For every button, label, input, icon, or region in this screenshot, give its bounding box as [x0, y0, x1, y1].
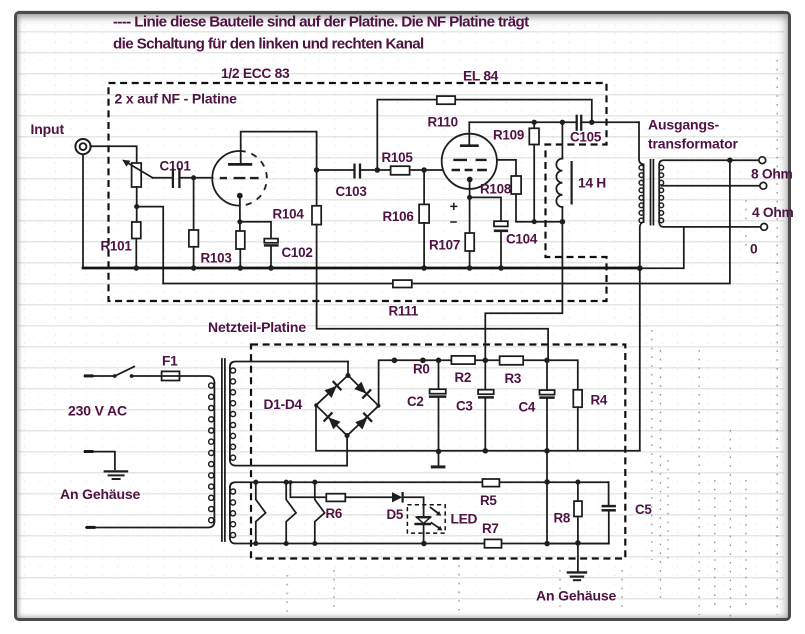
- svg-text:14 H: 14 H: [578, 176, 606, 191]
- junction C3 B+: [483, 358, 489, 364]
- svg-text:R5: R5: [480, 493, 497, 508]
- junction grid node: [191, 175, 196, 180]
- junction C3 ground: [483, 448, 489, 454]
- wire HV secondary top to bridge: [230, 362, 348, 367]
- svg-text:An Gehäuse: An Gehäuse: [536, 588, 617, 604]
- diode D2 top-right: [353, 381, 371, 399]
- bridge rectifier D1-D4 diamond: [316, 375, 379, 435]
- wire earth stub: [85, 452, 115, 470]
- junction feedback tap: [727, 157, 733, 163]
- junction C105 R110: [589, 120, 594, 125]
- resistor R3: [500, 356, 524, 365]
- junction bridge right: [376, 404, 380, 408]
- svg-text:Input: Input: [31, 121, 65, 137]
- wire R4 to ground line: [577, 407, 579, 451]
- wire cathode branch to C102: [240, 222, 271, 239]
- wire R107 to ground rail: [469, 251, 471, 268]
- junction rail C104: [498, 265, 504, 271]
- wire grid node down to R103: [193, 178, 195, 230]
- wire C103 to EL84 grid through R105: [360, 169, 442, 171]
- polarity plus mark: [450, 203, 457, 210]
- switch contact dots: [113, 374, 134, 378]
- wire C105 to output transformer primary: [581, 121, 639, 123]
- resistor R101: [132, 222, 141, 239]
- terminal 0: [761, 224, 768, 231]
- feedback line from 8 ohm tap: [163, 160, 730, 283]
- svg-text:C101: C101: [160, 159, 192, 174]
- wire R109 bottom to B+ node: [533, 145, 535, 222]
- wire pot bottom branch to feedback line: [137, 207, 164, 284]
- resistor R106: [419, 204, 429, 223]
- wire bridge AC top stub: [347, 362, 349, 376]
- wire R108 bottom to B+ node: [516, 194, 562, 222]
- wire LED to heater bottom rail: [423, 525, 425, 544]
- svg-text:D5: D5: [387, 507, 404, 522]
- wire screen grid to R108: [497, 160, 516, 176]
- output transformer T2 primary lead: [639, 122, 644, 164]
- wire R109 drop: [533, 122, 535, 128]
- wire wiper to C101: [153, 177, 173, 179]
- wire C102 to ground rail: [270, 247, 272, 268]
- diode D4 bottom-right: [354, 413, 372, 431]
- wire R110 feedback riser: [377, 100, 592, 170]
- diode D5: [392, 492, 403, 503]
- capacitor C104: [494, 221, 508, 231]
- junction C2 ground: [436, 449, 442, 455]
- wire HV secondary bottom to bridge: [230, 460, 347, 465]
- terminal 8 ohm: [759, 157, 766, 164]
- junction bridge left: [314, 403, 318, 407]
- junction heater rail top dots: [253, 479, 580, 485]
- resistor R104: [312, 206, 321, 225]
- choke lead from anode line: [561, 122, 563, 158]
- junction R110 riser: [375, 167, 381, 173]
- junction EL84 cathode branch: [467, 195, 472, 200]
- svg-text:R109: R109: [493, 128, 524, 143]
- input connector J1: [75, 139, 90, 154]
- wire R106 drop: [423, 170, 425, 204]
- power transformer T1 primary coil: [209, 383, 215, 523]
- capacitor C105: [577, 115, 582, 131]
- inductor L1 14H choke coil: [556, 159, 562, 207]
- junction R0 pad A: [392, 358, 398, 364]
- wire C4 riser: [546, 360, 548, 390]
- junction cathode branch: [237, 219, 242, 224]
- wire choke bottom B+ riser to PSU: [485, 207, 562, 360]
- wire C3 riser: [484, 360, 486, 389]
- wire D5 to LED: [403, 497, 424, 507]
- junction rail R101: [134, 265, 140, 271]
- wire secondary tap to 4 ohm terminal: [662, 185, 760, 187]
- wire C5 top lead: [608, 482, 610, 505]
- triode cathode dot: [237, 193, 243, 199]
- svg-text:die Schaltung für den linken u: die Schaltung für den linken und rechten…: [113, 36, 424, 53]
- mains terminal neutral: [86, 526, 96, 529]
- junction R0 pad B: [420, 357, 426, 363]
- svg-text:R7: R7: [482, 521, 499, 536]
- capacitor C3: [478, 390, 494, 398]
- wire bottom node ties: [547, 543, 609, 545]
- wire R101 to ground rail: [135, 239, 137, 269]
- wire secondary top to 8 ohm terminal: [659, 160, 759, 164]
- svg-text:R101: R101: [101, 239, 133, 254]
- svg-text:C104: C104: [506, 232, 538, 247]
- junction R109 bottom: [532, 219, 537, 224]
- junction bridge top: [345, 373, 350, 378]
- wire bridge AC bottom stub: [346, 436, 348, 466]
- diode D3 bottom-left: [324, 412, 342, 430]
- svg-text:C2: C2: [407, 394, 424, 409]
- wire C101 to triode grid: [180, 177, 213, 179]
- junction C4 ground: [544, 448, 550, 454]
- junction heater rail bottom dots: [253, 540, 580, 546]
- wire C104 to ground rail: [500, 232, 502, 268]
- mains earth terminal: [84, 450, 94, 453]
- svg-text:R6: R6: [326, 506, 343, 521]
- triode anode plate: [228, 163, 252, 166]
- svg-text:R110: R110: [428, 115, 458, 130]
- junction anode C103: [314, 167, 320, 173]
- resistor R109: [529, 128, 539, 144]
- power transformer HV secondary coil: [230, 367, 236, 461]
- wire R106 to ground rail: [423, 223, 425, 268]
- resistor R5: [482, 479, 499, 487]
- polarity minus mark: [450, 221, 457, 223]
- svg-text:R104: R104: [273, 207, 305, 222]
- wire switch to fuse: [132, 375, 162, 377]
- wire fuse to transformer primary: [180, 376, 215, 383]
- capacitor C2: [429, 389, 446, 396]
- wire ground stub bottom: [577, 543, 579, 571]
- wire R104 bottom to B+ distribution line: [317, 225, 548, 361]
- junction C4 B+: [544, 358, 550, 364]
- svg-text:0: 0: [750, 242, 758, 257]
- LED dashed box: [407, 505, 445, 533]
- resistor R6: [326, 494, 345, 502]
- wire triode anode lead and R104 feed: [241, 132, 317, 206]
- wire R8 drop: [577, 482, 579, 501]
- wire transformer primary bottom to mains neutral: [86, 522, 214, 528]
- wire cathode branch to C104: [470, 197, 501, 221]
- svg-text:R108: R108: [480, 182, 512, 197]
- wire triode cathode down: [239, 197, 241, 231]
- pentode U2 EL84 envelope: [442, 134, 497, 189]
- junction bridge bottom: [345, 433, 350, 438]
- output transformer T2 primary coil: [639, 164, 644, 222]
- junction rail R102: [191, 265, 197, 271]
- Netzteil-Platine dashed board outline: [251, 345, 625, 559]
- junction R109 top: [532, 120, 537, 125]
- svg-text:8 Ohm: 8 Ohm: [751, 167, 792, 182]
- chassis ground PSU: [431, 465, 446, 468]
- wire secondary bottom to 0 terminal: [659, 222, 760, 227]
- wire pot bottom to R101: [136, 187, 138, 222]
- svg-text:R107: R107: [429, 238, 460, 253]
- svg-text:R3: R3: [505, 371, 522, 386]
- wire primary bottom to ground: [640, 222, 644, 451]
- pentode anode plate: [460, 144, 479, 147]
- output transformer core: [651, 160, 654, 225]
- wire EL84 cathode down: [469, 182, 471, 234]
- svg-text:C3: C3: [456, 399, 473, 414]
- svg-text:D1-D4: D1-D4: [264, 397, 303, 412]
- svg-text:C102: C102: [282, 245, 313, 260]
- choke core line: [570, 161, 572, 205]
- resistor R7: [485, 539, 502, 547]
- pentode cathode dot: [467, 177, 473, 183]
- svg-text:LED: LED: [451, 512, 478, 527]
- wire anode line left of C105: [469, 121, 576, 123]
- svg-text:R0: R0: [413, 362, 430, 377]
- svg-text:C5: C5: [635, 502, 652, 517]
- wire LV secondary top rail with R5: [230, 482, 609, 487]
- resistor R8: [574, 501, 582, 516]
- fuse F1: [162, 371, 180, 380]
- junction choke top: [560, 120, 565, 125]
- svg-text:R105: R105: [382, 150, 414, 165]
- svg-text:R2: R2: [455, 370, 472, 385]
- resistor R111: [393, 280, 412, 287]
- wire input to potentiometer top: [91, 146, 137, 163]
- svg-text:Ausgangs-: Ausgangs-: [648, 117, 719, 133]
- wire grid leak to ground rail: [193, 247, 195, 268]
- resistor R4: [573, 390, 582, 407]
- wire cathode resistor to ground rail: [239, 249, 241, 268]
- capacitor C5: [602, 506, 616, 510]
- svg-text:---- Linie diese Bauteile sind: ---- Linie diese Bauteile sind auf der P…: [113, 14, 529, 31]
- svg-text:230 V AC: 230 V AC: [68, 403, 127, 419]
- terminal 4 ohm: [760, 182, 767, 189]
- wire LV secondary bottom rail with R7: [230, 538, 609, 543]
- junction rail OT ground: [637, 265, 643, 271]
- wire C5 bottom lead: [608, 511, 610, 543]
- wire bridge minus to ground line: [316, 405, 640, 451]
- NF-Platine dashed board outline: [109, 83, 607, 301]
- resistor R107: [465, 233, 474, 251]
- resistor R110: [437, 96, 455, 104]
- wire C2 to ground line: [438, 397, 440, 451]
- power transformer LV secondary coil: [230, 487, 236, 538]
- svg-text:R8: R8: [554, 511, 571, 526]
- pentode control grid dashes: [452, 169, 487, 171]
- triode U1a 1/2 ECC83 envelope: [212, 151, 267, 206]
- svg-text:F1: F1: [162, 354, 178, 369]
- svg-text:R106: R106: [383, 209, 414, 224]
- junction R106 top: [421, 167, 427, 173]
- junction rail R103: [238, 265, 244, 271]
- junction rail C102: [268, 265, 274, 271]
- wire C3 to ground line: [484, 398, 486, 451]
- svg-text:C4: C4: [519, 400, 536, 415]
- heater filament 3: [315, 482, 325, 543]
- capacitor C103: [355, 164, 361, 179]
- switch S1 lever: [115, 367, 134, 376]
- junction B+ riser: [560, 219, 566, 225]
- wire EL84 anode lead: [468, 122, 470, 145]
- svg-text:R4: R4: [591, 393, 608, 408]
- ground rail main: [83, 267, 640, 270]
- wire C2 riser: [438, 360, 440, 389]
- svg-text:An Gehäuse: An Gehäuse: [60, 486, 141, 502]
- junction C2 top: [436, 358, 442, 364]
- wire mains to switch: [85, 375, 115, 377]
- output transformer secondary coil: [659, 164, 664, 222]
- svg-text:transformator: transformator: [648, 136, 739, 152]
- junction rail R107: [467, 265, 473, 271]
- resistor R102 (grid leak): [189, 230, 199, 247]
- junction pot bottom: [134, 204, 139, 209]
- svg-text:C105: C105: [570, 130, 602, 145]
- resistor R2: [451, 356, 475, 364]
- pentode screen grid dashes: [453, 159, 486, 161]
- svg-text:C103: C103: [336, 184, 367, 199]
- svg-text:EL 84: EL 84: [463, 69, 499, 84]
- LED D6: [414, 508, 442, 531]
- capacitor C4: [539, 390, 554, 398]
- svg-text:1/2 ECC 83: 1/2 ECC 83: [221, 66, 290, 81]
- wire R6 branch: [290, 482, 392, 497]
- heater filament 2: [286, 482, 296, 543]
- capacitor C102: [264, 239, 279, 246]
- ground rail extension to 0 tap: [640, 227, 684, 268]
- resistor R108: [511, 176, 521, 194]
- svg-text:2 x auf NF - Platine: 2 x auf NF - Platine: [115, 91, 238, 107]
- svg-text:4 Ohm: 4 Ohm: [752, 205, 793, 220]
- potentiometer P1 body: [122, 160, 152, 187]
- svg-text:Netzteil-Platine: Netzteil-Platine: [208, 319, 306, 335]
- junction rail R106: [421, 265, 427, 271]
- wire C4 lead down through ground to heater rail: [546, 398, 548, 543]
- svg-text:R111: R111: [389, 304, 419, 319]
- capacitor C101: [173, 168, 180, 188]
- resistor R105: [391, 166, 410, 175]
- power transformer core: [222, 359, 225, 541]
- resistor R103 (cathode): [236, 231, 245, 249]
- chassis ground bottom: [567, 572, 588, 580]
- wire anode node to C103: [317, 169, 355, 171]
- chassis ground mains: [104, 471, 129, 479]
- wire input ground drop: [82, 154, 84, 268]
- wire bridge plus to B+ rail and R4: [379, 360, 578, 406]
- heater filament 1: [256, 482, 266, 543]
- triode grid dashes: [220, 177, 259, 179]
- mains terminal phase: [84, 374, 94, 377]
- svg-text:R103: R103: [201, 251, 232, 266]
- diode D1 top-left: [324, 381, 342, 399]
- wire R8 to bottom node: [577, 517, 579, 543]
- wire ground stub PSU: [438, 452, 440, 466]
